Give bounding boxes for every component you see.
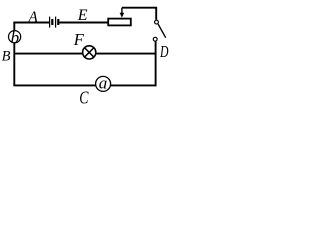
wire meter b to node B xyxy=(13,43,15,54)
battery E cell1 short plate xyxy=(51,19,53,25)
wire node B to lamp F xyxy=(14,53,82,55)
meter b circle xyxy=(9,31,21,43)
switch S bottom contact xyxy=(153,37,157,41)
wire slider to switch (vertical drop) xyxy=(155,7,157,20)
lamp F circle xyxy=(83,46,96,59)
switch S blade (open) xyxy=(158,24,166,38)
battery E cell2 short plate xyxy=(57,19,59,25)
wire meter a to bottom-right corner xyxy=(110,84,156,86)
lamp F cross stroke 2 xyxy=(84,48,94,58)
wire left vertical top (corner to meter b) xyxy=(13,22,15,31)
wire node D down to bottom-right corner xyxy=(155,54,157,87)
svg-text:B: B xyxy=(2,48,11,64)
svg-text:F: F xyxy=(73,30,85,49)
wire bottom-left to meter a xyxy=(13,84,95,86)
battery E cell1 long plate xyxy=(49,17,51,28)
wire node B down to bottom-left corner xyxy=(13,54,15,86)
svg-text:C: C xyxy=(79,88,89,108)
switch S top contact xyxy=(155,20,159,24)
wire lamp F to node D xyxy=(96,53,157,55)
wire slider to switch (horizontal) xyxy=(122,7,156,9)
rheostat slider arrow stem xyxy=(121,8,123,14)
wire switch to node D xyxy=(155,41,157,53)
wire battery to rheostat xyxy=(59,22,108,24)
lamp F cross stroke 1 xyxy=(84,48,94,58)
meter a circle xyxy=(96,76,111,91)
rheostat R body xyxy=(108,19,131,26)
rheostat slider arrowhead xyxy=(120,13,125,18)
battery E cell2 long plate xyxy=(55,17,57,28)
svg-text:a: a xyxy=(99,73,108,92)
svg-text:E: E xyxy=(77,7,88,24)
svg-text:D: D xyxy=(159,42,168,61)
wire top-left: left corner to battery xyxy=(13,22,49,24)
svg-text:A: A xyxy=(27,9,38,26)
